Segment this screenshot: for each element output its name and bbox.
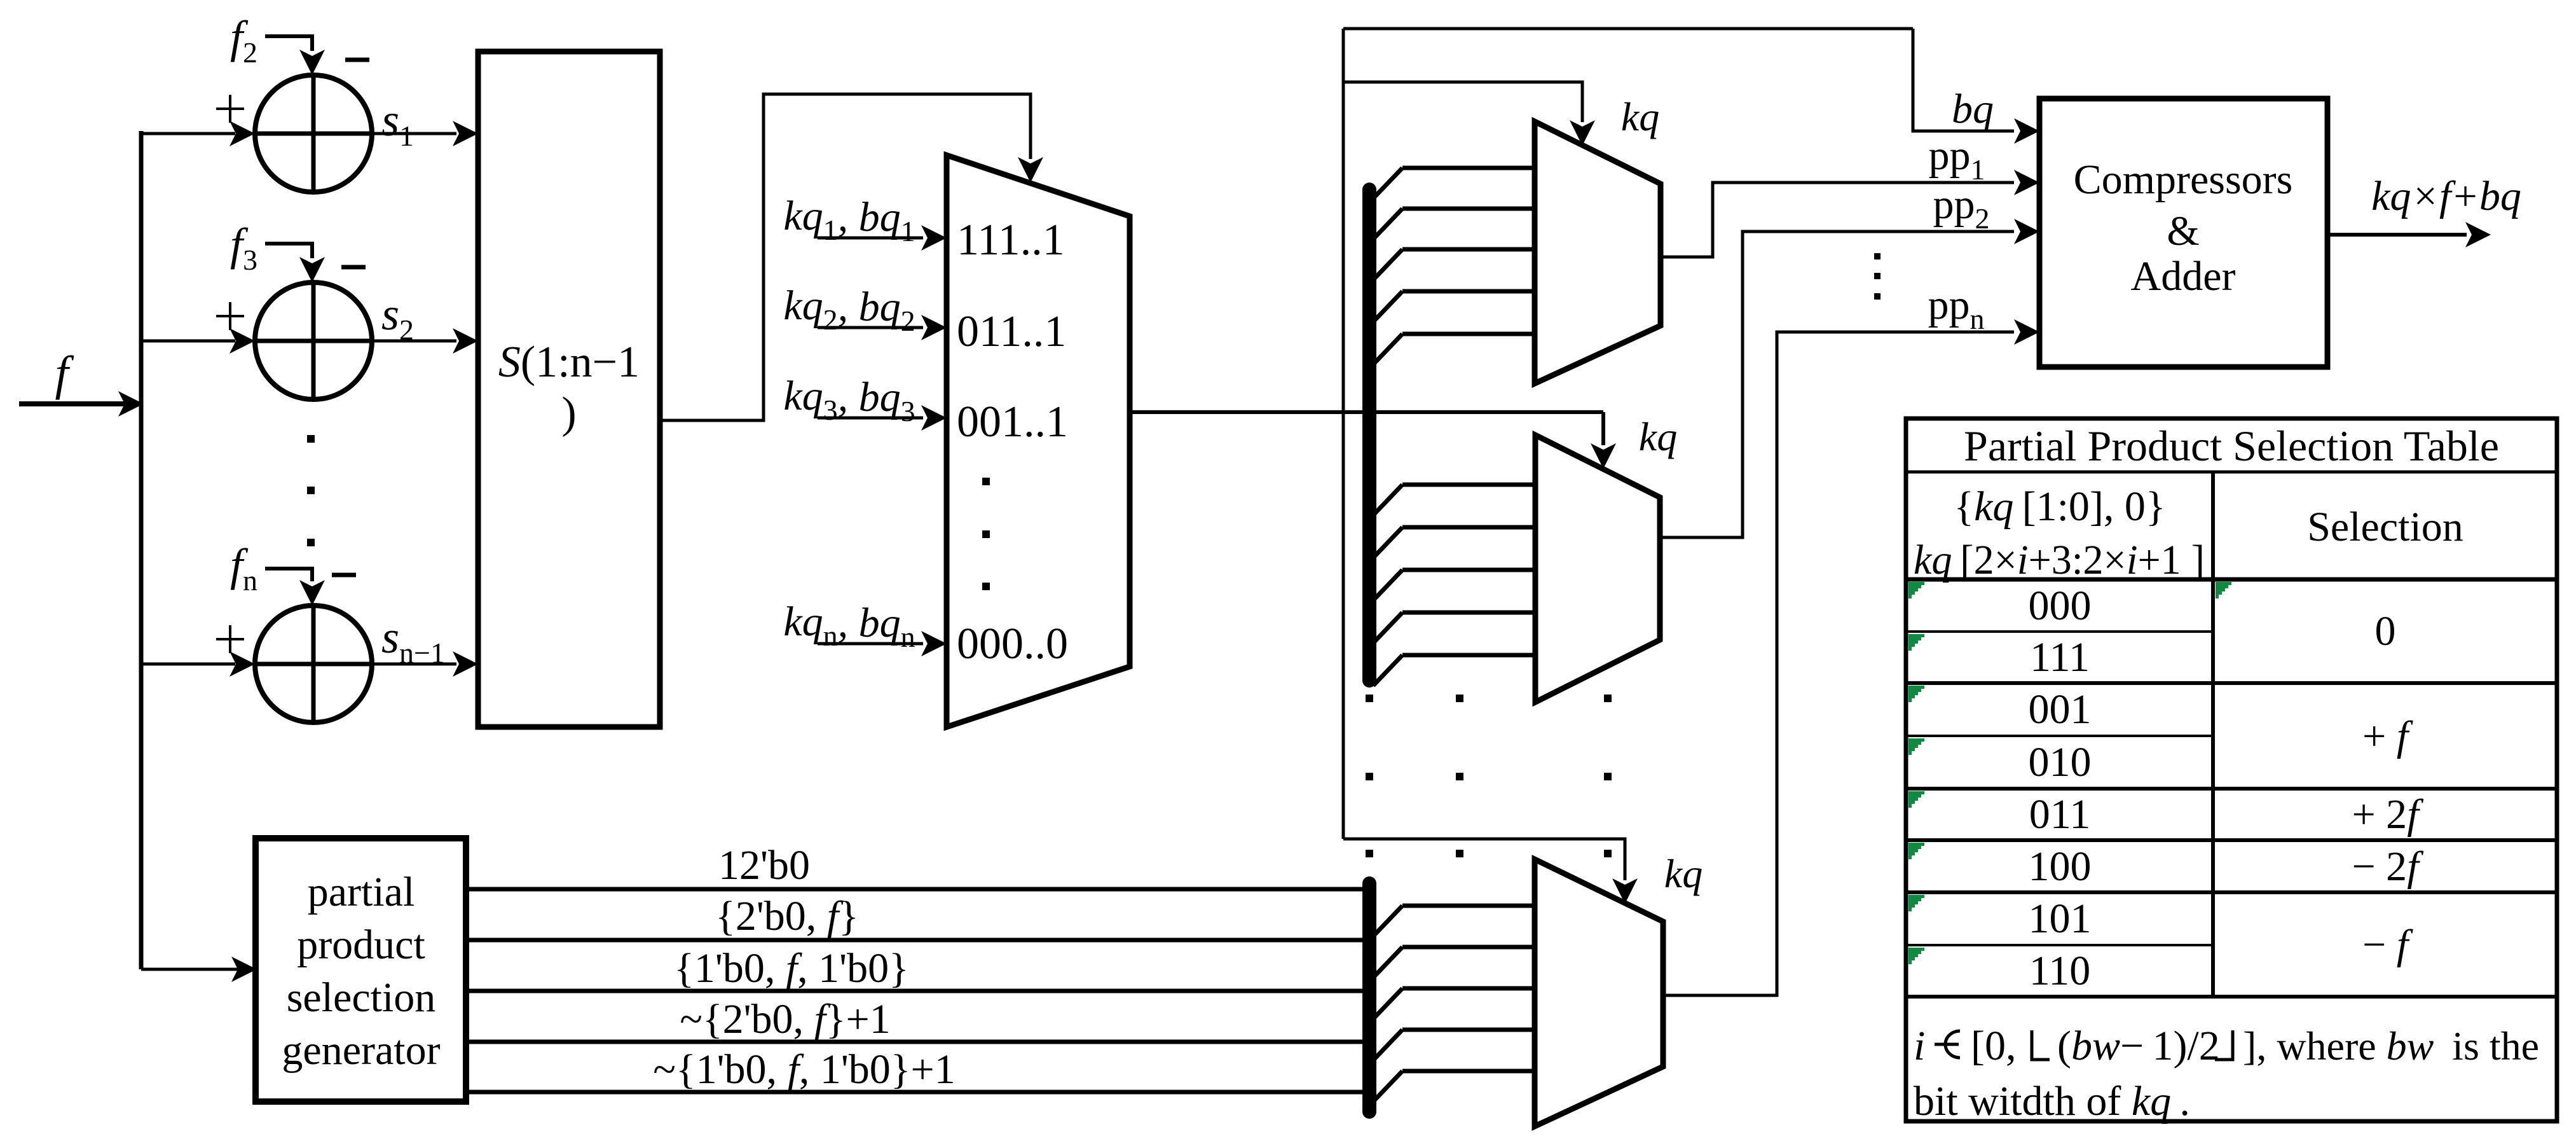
label kq (M3 select)	[1664, 851, 1702, 896]
wire mux M3 output ppn	[1663, 319, 2039, 995]
svg-text:000..0: 000..0	[957, 619, 1068, 668]
mux M3 (ppn selector)	[1535, 859, 1663, 1126]
label plus sign A1	[216, 95, 244, 123]
label kqn, bqn	[783, 598, 915, 653]
table selection column values	[2352, 608, 2423, 968]
svg-text:kq [2×i+3:2×i+1 ]: kq [2×i+3:2×i+1 ]	[1914, 537, 2205, 583]
svg-text:{2'b0, f}: {2'b0, f}	[715, 893, 859, 939]
table outer border	[1906, 418, 2557, 1121]
adder (summer) A1	[255, 75, 372, 192]
mux M1 (pp1 selector)	[1535, 121, 1661, 384]
table title text	[1964, 422, 2499, 470]
wire result output	[2327, 222, 2491, 247]
table header divider	[1906, 577, 2557, 582]
svg-text:111: 111	[2030, 634, 2090, 681]
label minus sign A2	[341, 265, 366, 270]
svg-text:(bw− 1)/2: (bw− 1)/2	[2057, 1023, 2220, 1069]
table note line 1	[1914, 1023, 2539, 1069]
label plus sign A3	[216, 625, 244, 653]
table green corner markers	[1908, 582, 2231, 964]
wire bus to A1 plus input	[141, 121, 255, 146]
label pp2	[1933, 181, 1990, 235]
svg-text:kq: kq	[1664, 851, 1702, 896]
wire f input	[19, 391, 144, 417]
svg-text:kq×f+bq: kq×f+bq	[2371, 173, 2521, 219]
svg-text:0: 0	[2375, 608, 2396, 654]
svg-text:partial: partial	[308, 869, 415, 915]
label S(1:n-1)	[498, 338, 640, 438]
wire kq select to mux M2	[1591, 412, 1616, 469]
wire bus to generator	[141, 957, 257, 982]
label mux M0 input 011..1	[957, 307, 1066, 356]
wire A2 output s2	[372, 328, 478, 354]
wire mux M2 output pp2	[1660, 219, 2039, 537]
label sn−1	[381, 612, 445, 669]
label minus sign A3	[332, 573, 356, 577]
label mux M0 input 001..1	[957, 398, 1068, 446]
mux M2 (pp2 selector)	[1535, 435, 1660, 702]
svg-text:&: &	[2167, 208, 2199, 254]
svg-text:kq: kq	[1621, 94, 1659, 139]
label kq3, bq3	[783, 373, 915, 427]
table column divider	[2211, 472, 2215, 997]
svg-text:+ 2f: + 2f	[2352, 791, 2423, 838]
wire f vertical bus	[139, 131, 144, 969]
svg-text:Partial Product Selection Tabl: Partial Product Selection Table	[1964, 422, 2499, 470]
svg-text:{kq [1:0], 0}: {kq [1:0], 0}	[1954, 483, 2165, 530]
wire kq select to mux M1	[1343, 82, 1595, 146]
block partial product selection generator	[256, 838, 466, 1102]
label f2	[230, 11, 257, 69]
wire kq/bq top run	[1343, 27, 1913, 31]
block S(1:n-1)	[478, 52, 660, 727]
wire mux M0 output (selected kq,bq)	[1130, 410, 1603, 414]
svg-text:Compressors: Compressors	[2074, 156, 2293, 203]
svg-text:110: 110	[2029, 948, 2091, 994]
label pp1	[1929, 132, 1985, 186]
dots repetition M2..M3	[1366, 695, 1612, 857]
svg-text:011..1: 011..1	[957, 307, 1066, 356]
wire mux M1 output pp1	[1661, 170, 2039, 257]
bus bar (partial products) lower	[1362, 883, 1376, 1112]
wire fn to A3 minus input	[265, 569, 325, 605]
wire S output to mux select	[660, 94, 1043, 420]
wire kq/bq vertical distribution	[1342, 29, 1345, 839]
wire kq1,bq1 into mux M0	[818, 225, 947, 251]
label Compressors & Adder	[2074, 156, 2293, 300]
svg-text:111..1: 111..1	[957, 216, 1065, 265]
table inner dividers	[1906, 632, 2213, 945]
label kq1, bq1	[783, 193, 915, 247]
svg-text:[0,: [0,	[1971, 1023, 2016, 1069]
svg-text:selection: selection	[287, 974, 436, 1021]
svg-text:i: i	[1914, 1023, 1925, 1069]
wire bus to A3 plus input	[141, 651, 255, 677]
svg-text:− 2f: − 2f	[2352, 843, 2423, 890]
table header col2 Selection	[2307, 504, 2463, 550]
svg-text:001: 001	[2029, 686, 2092, 733]
label fn	[230, 539, 257, 597]
adder (summer) A2	[255, 282, 372, 399]
label plus sign A2	[216, 302, 244, 330]
svg-text:Adder: Adder	[2131, 253, 2236, 300]
wires generator outputs	[466, 889, 1366, 1092]
label mux M0 input 111..1	[957, 216, 1065, 265]
wire kq select to mux M3	[1343, 839, 1638, 904]
table title divider	[1906, 471, 2557, 474]
wire kq3,bq3 into mux M0	[818, 405, 947, 431]
svg-text:bq: bq	[1952, 86, 1994, 132]
label s1	[381, 95, 414, 152]
label kq2, bq2	[783, 282, 915, 337]
mux M0 (kq,bq selector)	[947, 155, 1130, 727]
table header col1	[1914, 483, 2205, 583]
wire kq2,bq2 into mux M0	[818, 315, 947, 340]
dots inside mux M0	[982, 478, 990, 590]
label ppn	[1928, 282, 1985, 335]
svg-text:): )	[561, 389, 576, 438]
dots between adders	[307, 435, 315, 546]
dots between pp2 and ppn	[1874, 253, 1881, 300]
label s2	[381, 289, 414, 346]
label f3	[230, 219, 257, 276]
label bq	[1952, 86, 1994, 132]
wire f2 to A1 minus input	[265, 36, 325, 75]
wire bus to A2 plus input	[141, 328, 255, 354]
svg-text:− f: − f	[2362, 922, 2413, 968]
wires bus taps to mux M3	[1373, 906, 1535, 1102]
svg-text:kq: kq	[1639, 414, 1677, 459]
wires bus taps to mux M1 and M2	[1373, 168, 1535, 686]
svg-text:+ f: + f	[2362, 713, 2413, 759]
adder (summer) A3	[255, 605, 372, 723]
label mux M0 input 000..0	[957, 619, 1068, 668]
svg-text:product: product	[297, 922, 425, 968]
svg-text:100: 100	[2029, 843, 2092, 890]
table group dividers	[1906, 683, 2557, 997]
label kq (M1 select)	[1621, 94, 1659, 139]
wire A3 output sn−1	[372, 651, 478, 677]
wire A1 output s1	[372, 121, 478, 146]
bus bar (partial products) upper	[1362, 190, 1376, 681]
wire f3 to A2 minus input	[265, 244, 325, 282]
svg-text:S(1:n−1: S(1:n−1	[498, 338, 640, 387]
svg-text:], where bw is the: ], where bw is the	[2243, 1023, 2539, 1068]
svg-text:~{2'b0, f}+1: ~{2'b0, f}+1	[680, 996, 891, 1042]
svg-text:Selection: Selection	[2307, 504, 2463, 550]
svg-text:000: 000	[2029, 583, 2092, 629]
svg-text:001..1: 001..1	[957, 398, 1068, 446]
wire bq to compressors	[1913, 29, 2039, 144]
label kq×f+bq	[2371, 173, 2521, 219]
labels generator outputs	[653, 842, 955, 1093]
svg-text:generator: generator	[282, 1027, 440, 1074]
svg-text:101: 101	[2029, 896, 2092, 942]
node f (input label)	[55, 347, 74, 400]
label kq (M2 select)	[1639, 414, 1677, 459]
label minus sign A1	[345, 58, 369, 62]
label partial product selection generator	[282, 869, 440, 1074]
svg-text:~{1'b0, f, 1'b0}+1: ~{1'b0, f, 1'b0}+1	[653, 1046, 955, 1093]
wire kqn,bqn into mux M0	[818, 631, 947, 656]
table code column values	[2029, 583, 2092, 994]
table note line 2	[1914, 1078, 2190, 1124]
block Compressors & Adder	[2039, 99, 2327, 367]
svg-text:{1'b0, f, 1'b0}: {1'b0, f, 1'b0}	[674, 945, 909, 992]
svg-text:12'b0: 12'b0	[718, 842, 810, 889]
svg-text:011: 011	[2029, 791, 2091, 838]
svg-text:010: 010	[2029, 739, 2092, 785]
svg-text:bit witdth of kq .: bit witdth of kq .	[1914, 1078, 2190, 1124]
